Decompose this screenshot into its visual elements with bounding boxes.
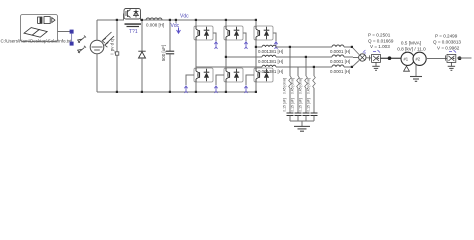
freewheel diode D1 branch <box>141 20 143 51</box>
gate node g1 <box>214 42 217 49</box>
svg-text:0.15 [uF]: 0.15 [uF] <box>299 98 303 111</box>
svg-text:C:\Users\Ham\Desktop\Solarinfo: C:\Users\Ham\Desktop\Solarinfo.txt <box>1 39 73 44</box>
ground M2 <box>448 62 455 70</box>
svg-text:V = 0.9962: V = 0.9962 <box>437 45 460 50</box>
inverter leg A upper stub <box>195 20 197 26</box>
svg-text:Vdc: Vdc <box>180 14 189 20</box>
svg-text:0.0001 [H]: 0.0001 [H] <box>330 69 350 74</box>
leg A mid wire <box>195 40 197 68</box>
svg-text:P = 0.2499: P = 0.2499 <box>435 34 458 39</box>
filter branch 3 <box>303 57 310 121</box>
PV data file block U1 <box>21 15 58 42</box>
svg-text:Q = 0.01669: Q = 0.01669 <box>368 38 394 43</box>
svg-text:0.0001 [H]: 0.0001 [H] <box>330 49 350 54</box>
svg-text:0.15 [uF]: 0.15 [uF] <box>307 98 311 111</box>
3-phase merge node <box>359 50 366 61</box>
svg-text:0.8 [kV] / 11.0: 0.8 [kV] / 11.0 <box>397 47 426 52</box>
svg-text:0.15 [uF]: 0.15 [uF] <box>291 98 295 111</box>
top rail left <box>97 19 124 21</box>
inductor L1 <box>146 18 162 20</box>
filter branch 2 <box>295 67 302 121</box>
filter branch 1 <box>287 47 294 121</box>
inductor Lb1 <box>262 55 276 57</box>
gate plate bars <box>125 23 142 25</box>
svg-text:0.45 [ohm]: 0.45 [ohm] <box>283 78 287 94</box>
leg C mid wire <box>255 40 257 68</box>
gate wire G2 <box>246 75 254 85</box>
leg B mid wire <box>225 40 227 68</box>
svg-text:0.0001 [H]: 0.0001 [H] <box>330 59 350 64</box>
gate wire G3 <box>243 33 246 41</box>
svg-text:0.15 [uF]: 0.15 [uF] <box>283 98 287 111</box>
bottom rail <box>97 91 256 93</box>
svg-text:Q = 0.003813: Q = 0.003813 <box>433 40 461 45</box>
svg-text:0.001381 [H]: 0.001381 [H] <box>258 59 283 64</box>
diode D1 <box>138 51 145 58</box>
wire <box>276 46 332 48</box>
junction dots <box>116 19 353 93</box>
svg-text:0.45 [ohm]: 0.45 [ohm] <box>307 78 311 94</box>
wire <box>344 46 352 48</box>
wire PV to bottom rail <box>96 54 98 92</box>
IGBT G1 <box>194 26 213 40</box>
leg C lower stub <box>255 82 257 92</box>
power meter M1 <box>369 55 371 60</box>
leg B lower stub <box>225 82 227 92</box>
filter ground stem <box>301 121 303 126</box>
inductor Lc1 <box>262 65 276 67</box>
wire <box>344 56 358 58</box>
svg-text:#1: #1 <box>403 57 408 62</box>
phase line B <box>226 56 262 58</box>
svg-text:I_pv d q: I_pv d q <box>110 39 115 55</box>
voltmeter node <box>115 52 118 55</box>
gate node g4 <box>184 86 187 93</box>
Vdc voltmeter stub <box>175 20 177 23</box>
inductor Lc2 <box>332 65 344 67</box>
svg-text:500 [uF]: 500 [uF] <box>161 45 166 61</box>
ground M1 <box>372 62 379 70</box>
IGBT G4 <box>194 68 213 82</box>
svg-text:V = 1.003: V = 1.003 <box>370 44 390 49</box>
wire S to T <box>71 34 73 42</box>
gate node g6 <box>214 86 217 93</box>
inductor La1 <box>262 45 276 47</box>
bus node dot <box>388 56 392 60</box>
svg-text:P = 0.2501: P = 0.2501 <box>368 32 391 37</box>
gate wire G4 <box>186 75 194 85</box>
phase line A <box>256 46 262 48</box>
IGBT G2 <box>254 68 273 82</box>
IGBT G3 <box>224 26 243 40</box>
voltmeter branch Epv <box>116 20 118 92</box>
top rail mid <box>141 19 177 21</box>
wire <box>276 66 332 68</box>
chopper IGBT module <box>124 9 141 20</box>
svg-text:0.5 [MVA]: 0.5 [MVA] <box>401 41 421 46</box>
gate node g5 <box>274 42 277 49</box>
wire block output <box>58 31 71 33</box>
inverter leg B upper stub <box>225 20 227 26</box>
gate node g3 <box>244 42 247 49</box>
signal arrow T <box>78 46 86 53</box>
phase line C <box>196 66 262 68</box>
svg-text:#2: #2 <box>415 57 420 62</box>
Vdc arrow <box>177 28 181 34</box>
wire diagonal C <box>352 61 359 68</box>
chopper IGBT T1 jog up <box>123 14 125 21</box>
transformer T1 winding 1 <box>401 52 414 65</box>
ground <box>294 126 310 131</box>
gate wire G5 <box>273 33 276 41</box>
inverter leg C upper stub <box>255 20 257 26</box>
DC link capacitor C1 branch <box>169 20 171 51</box>
filter branch 4 <box>311 67 318 121</box>
svg-text:0.008 [H]: 0.008 [H] <box>146 22 164 27</box>
gate wire G1 <box>213 33 216 41</box>
blue marks M1 <box>373 50 380 53</box>
wire <box>344 66 352 68</box>
node T <box>70 42 74 46</box>
transformer T1 winding 2 <box>413 52 426 65</box>
svg-text:0.45 [ohm]: 0.45 [ohm] <box>299 78 303 94</box>
gate wire G6 <box>216 75 224 85</box>
transformer ground <box>410 77 422 82</box>
grid node dot <box>458 56 462 60</box>
filter common bus <box>290 120 314 122</box>
inductor La2 <box>332 45 344 47</box>
wire to grid <box>457 57 471 59</box>
IGBT G6 <box>224 68 243 82</box>
PV current source <box>90 32 114 54</box>
wire diagonal A <box>352 47 359 55</box>
wire <box>276 56 332 58</box>
wire merge to meter <box>366 57 371 59</box>
svg-text:0.45 [ohm]: 0.45 [ohm] <box>291 78 295 94</box>
IGBT G5 <box>254 26 273 40</box>
delta symbol <box>404 66 410 71</box>
transformer ground stem <box>415 65 417 76</box>
svg-text:0.001381 [H]: 0.001381 [H] <box>258 49 283 54</box>
inductor Lb2 <box>332 55 344 57</box>
wire transformer to meter 2 <box>426 58 447 60</box>
leg A lower stub <box>195 82 197 92</box>
blue marks M2 <box>449 50 456 53</box>
svg-text:T?1: T?1 <box>129 29 138 35</box>
capacitor C1 <box>166 51 174 54</box>
wire PV to top rail <box>96 20 98 40</box>
bus wire <box>380 57 401 59</box>
gate node g2 <box>244 86 247 93</box>
top rail right <box>176 19 256 21</box>
node S <box>70 30 74 34</box>
svg-text:0.001381 [H]: 0.001381 [H] <box>258 69 283 74</box>
power meter M2 <box>445 55 447 60</box>
signal arrow S <box>78 36 86 43</box>
